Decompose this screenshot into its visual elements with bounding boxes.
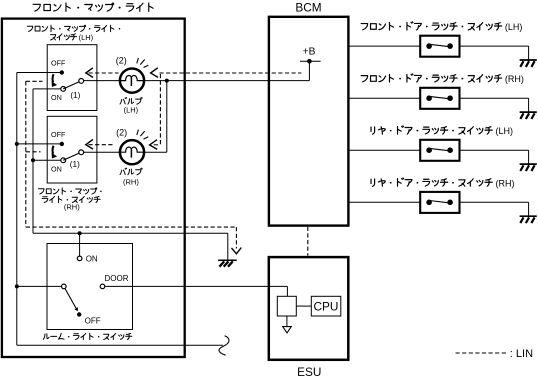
ground G1 (map light circuit) <box>218 260 237 266</box>
wire: BCM to latch switch 3 <box>348 149 420 151</box>
svg-text:OFF: OFF <box>51 130 66 139</box>
junction: OFF rail at S2 row <box>15 142 19 146</box>
latch switch SW1 contacts <box>426 43 432 49</box>
wire: latch switch 2 to ground <box>460 97 529 99</box>
junction: bulb branch <box>165 79 169 83</box>
junction: ON rail at S2 row <box>31 158 35 162</box>
svg-text:(RH): (RH) <box>505 74 524 84</box>
dashed flow: to ground arrow <box>26 226 237 228</box>
switch S2 box (RH) <box>47 116 97 183</box>
arrow: flow into ground <box>232 248 242 254</box>
door latch switch SW3 box <box>420 140 459 161</box>
dashed flow: left rail down <box>25 81 27 227</box>
wire: latch switch 3 to ground <box>460 149 529 151</box>
label: door latch switch row 4 <box>371 178 492 186</box>
wire: BCM to latch switch 4 <box>348 201 420 203</box>
arrow: flow into S1 <box>86 68 93 78</box>
label: door latch switch row 2 <box>361 74 501 82</box>
dashed flow: bulb LH to +B <box>160 72 302 74</box>
CPU box <box>311 296 341 316</box>
junction: OFF rail at room switch <box>15 284 19 288</box>
svg-text:DOOR: DOOR <box>105 274 129 283</box>
svg-text:(LH): (LH) <box>124 105 139 114</box>
switch S1 OFF contact <box>60 70 64 74</box>
switch S1 lever and pivot <box>63 81 81 89</box>
switch S2 OFF contact <box>60 142 64 146</box>
svg-text:: LIN: : LIN <box>510 348 533 360</box>
wire: S1 ON to ON rail <box>33 88 61 90</box>
switch S2 rotation arrow <box>53 146 54 154</box>
wire: S1 OFF to left rail <box>17 72 60 74</box>
wire: bottom run to other room lights <box>17 344 223 346</box>
wire: BCM to latch switch 2 <box>348 97 420 99</box>
LIN dashed bus BCM-ESU <box>307 227 309 256</box>
wire: DOOR input drop inside ESU <box>286 286 288 296</box>
dashed flow: S1 row <box>89 72 119 74</box>
svg-text:(2): (2) <box>116 128 127 138</box>
wire: ground run to right <box>33 232 228 234</box>
svg-text:CPU: CPU <box>314 299 339 313</box>
wire: S1 output through bulb LH to BCM <box>84 80 120 82</box>
svg-text:(RH): (RH) <box>123 178 139 187</box>
door latch switch SW2 box <box>420 88 459 109</box>
wire: DOOR to ESU <box>105 285 288 287</box>
wire: S2 OFF to rail <box>17 143 60 145</box>
wire: branch down to bulb RH <box>166 81 168 153</box>
room switch DOOR contact <box>100 284 105 289</box>
bulb RH label <box>120 168 142 175</box>
wire: block to CPU <box>296 305 311 307</box>
junction: room switch ON tap <box>78 231 82 235</box>
room light switch box <box>47 244 133 330</box>
door latch switch SW4 box <box>420 192 459 213</box>
wire: ON rail down to ground run <box>32 160 34 233</box>
wire: latch switch 4 to ground <box>460 201 529 203</box>
wire: left OFF rail down <box>16 73 18 346</box>
room switch OFF contact <box>77 312 81 316</box>
legend: LIN dashed line <box>456 352 507 354</box>
svg-text:(LH): (LH) <box>496 126 514 136</box>
room switch lever to OFF <box>65 289 76 309</box>
switch S1 rotation arrow <box>53 74 54 82</box>
svg-text:ON: ON <box>51 164 62 173</box>
wire: tap down to room ON <box>79 233 81 256</box>
svg-text:(LH): (LH) <box>505 22 523 32</box>
svg-text:OFF: OFF <box>85 317 101 326</box>
door latch switch SW1 box <box>420 36 459 57</box>
ground G4 <box>520 164 537 171</box>
ground G5 <box>520 216 537 223</box>
arrow: flow into S2 <box>86 140 93 150</box>
switch S2 lever and pivot <box>63 152 81 160</box>
svg-text:ON: ON <box>51 93 62 102</box>
svg-text:(2): (2) <box>116 55 127 65</box>
wire: S2 output through bulb RH <box>84 151 120 153</box>
svg-text:(1): (1) <box>70 160 80 169</box>
wire: S2 ON to rail <box>33 159 61 161</box>
switch S1 box (LH) <box>47 45 97 111</box>
dashed flow: drop to bulb RH <box>159 74 161 145</box>
latch switch SW4 contacts <box>426 200 432 206</box>
wire: down to ground symbol <box>227 233 229 259</box>
svg-text:(RH): (RH) <box>64 203 80 212</box>
label: door latch switch row 1 <box>361 22 501 30</box>
switch S2 ON contact <box>61 158 66 163</box>
arrow: flow into bulb RH <box>150 140 158 150</box>
ground G3 <box>520 112 537 119</box>
signal ground triangle <box>283 327 292 333</box>
dashed flow: stub at S1 <box>26 80 43 82</box>
svg-text:(LH): (LH) <box>79 33 94 42</box>
svg-text:(RH): (RH) <box>496 178 515 188</box>
wire: latch switch 1 to ground <box>460 45 529 47</box>
ESU input block <box>277 296 296 316</box>
dashed flow: S2 row <box>89 144 115 146</box>
arrow: flow into bulb LH <box>151 68 158 78</box>
wire: BCM to latch switch 1 <box>348 45 420 47</box>
room switch label <box>43 333 131 339</box>
BCM box <box>269 17 349 226</box>
front map light unit box <box>2 19 185 357</box>
latch switch SW2 contacts <box>426 95 432 101</box>
wire: block to signal ground <box>286 316 288 327</box>
svg-text:OFF: OFF <box>51 59 66 68</box>
dashed flow: stub at S2 <box>26 151 41 153</box>
label: front map light switch (LH) <box>27 25 120 31</box>
svg-text:ON: ON <box>86 255 98 264</box>
continuation squiggle <box>219 336 229 355</box>
room switch common contact <box>62 284 67 289</box>
latch switch SW3 contacts <box>426 147 432 153</box>
svg-text:(1): (1) <box>70 91 80 100</box>
ESU box <box>269 257 349 360</box>
svg-text:+B: +B <box>303 47 316 58</box>
ground G2 <box>520 60 537 67</box>
label: door latch switch row 3 <box>371 126 492 134</box>
wire: up to +B <box>308 61 310 80</box>
bulb LH label <box>120 97 142 104</box>
room switch ON contact <box>77 256 82 261</box>
svg-text:ESU: ESU <box>297 365 321 379</box>
svg-text:BCM: BCM <box>295 1 321 15</box>
title: front map light <box>33 3 153 11</box>
wire: common to OFF rail <box>17 285 62 287</box>
label: front map light switch (RH) <box>38 188 101 194</box>
switch S1 ON contact <box>61 87 66 92</box>
